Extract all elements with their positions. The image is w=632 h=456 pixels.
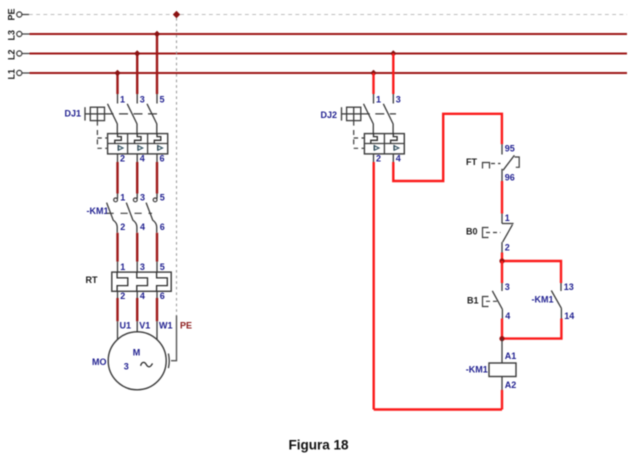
FT terminal 95 tick <box>501 144 503 154</box>
svg-text:2: 2 <box>376 154 381 164</box>
DJ2 thermal element pole2 <box>391 134 398 144</box>
B0 top bar <box>502 223 514 225</box>
motor stub U1 <box>117 321 119 339</box>
DJ1 terminal 2 tick <box>117 154 119 162</box>
DJ1 magnetic element pole1 <box>118 145 123 151</box>
DJ2 body column divider <box>383 134 385 154</box>
wire junction to coil A1 <box>501 339 503 363</box>
svg-text:DJ2: DJ2 <box>321 110 338 120</box>
svg-text:L2: L2 <box>7 49 17 60</box>
DJ1 body column divider 1 <box>127 134 129 154</box>
DJ1 thermal element pole2 <box>135 134 142 144</box>
wire KM1-6 to RT-5 <box>156 233 158 262</box>
FT terminal 96 tick <box>501 169 503 181</box>
wire DJ1-4 to KM1-3 <box>136 162 138 194</box>
breaker DJ2 linkage dashes <box>361 113 396 115</box>
wire KM1 aux 14 to junction 2 <box>502 319 561 339</box>
svg-text:4: 4 <box>396 154 401 164</box>
FT linkage dashes <box>491 163 501 165</box>
svg-text:6: 6 <box>160 154 165 164</box>
motor stub W1 <box>156 321 158 339</box>
svg-text:6: 6 <box>160 291 165 301</box>
svg-text:-KM1: -KM1 <box>87 206 109 216</box>
breaker DJ1 trip linkage dashed stub upper <box>97 137 107 139</box>
svg-text:96: 96 <box>505 173 515 183</box>
RT terminal 1 tick <box>117 262 119 273</box>
svg-text:5: 5 <box>160 95 165 105</box>
L2 rail <box>30 53 628 55</box>
wire L1 to DJ1 pole1 <box>116 73 118 94</box>
L1 rail <box>30 72 628 74</box>
RT terminal 6 tick <box>156 291 158 298</box>
wire RT-2 to motor U1 <box>116 298 118 321</box>
PE bus (dashed) <box>29 14 627 16</box>
terminal PE <box>7 8 30 20</box>
DJ2 pole1 terminal 1 tick <box>373 94 375 104</box>
breaker DJ1 operator bar <box>84 107 86 120</box>
B0 pushbutton symbol <box>483 228 489 238</box>
junction L1/DJ1 <box>114 70 120 76</box>
DJ2 terminal 2 tick <box>373 154 375 162</box>
motor sine symbol <box>141 362 153 366</box>
wire B1 to junction 2 <box>501 319 503 339</box>
wire B0 to junction <box>501 253 503 262</box>
branch wire to KM1 aux 13 <box>502 261 561 283</box>
svg-text:4: 4 <box>140 291 145 301</box>
svg-text:A1: A1 <box>505 351 517 361</box>
KM1 pole2 contact circle <box>133 198 137 202</box>
terminal L1 <box>7 69 30 80</box>
PE wire solid to motor <box>171 316 177 361</box>
B1 NO blade <box>492 291 502 310</box>
FT NC blade <box>503 155 514 170</box>
PE earth arc on motor frame <box>167 354 170 369</box>
svg-text:3: 3 <box>140 193 145 203</box>
DJ1 terminal 4 tick <box>136 154 138 162</box>
DJ1 body row divider <box>108 143 168 145</box>
svg-text:FT: FT <box>466 157 477 167</box>
B1 terminal 4 tick <box>501 309 503 318</box>
svg-text:-KM1: -KM1 <box>532 295 554 305</box>
KM1 pole1 terminal 1 tick <box>117 194 119 199</box>
breaker DJ2 trip linkage dashed stub lower <box>354 147 365 149</box>
svg-text:4: 4 <box>140 222 145 232</box>
KM1 pole1 contact circle <box>114 198 118 202</box>
B0 NC blade <box>503 225 513 243</box>
breaker DJ2 operator cross horizontal <box>347 113 361 115</box>
junction L2/DJ2 <box>390 50 396 56</box>
B0 linkage dashes <box>486 232 501 234</box>
B1 linkage dashes <box>486 300 497 302</box>
svg-text:V1: V1 <box>139 320 150 330</box>
DJ1 thermal element pole1 <box>115 134 122 144</box>
RT terminal 2 tick <box>117 291 119 298</box>
svg-text:L1: L1 <box>7 69 17 80</box>
breaker DJ1 linkage dashes <box>105 113 159 115</box>
DJ1 thermal element pole3 <box>154 134 161 144</box>
DJ2 body row divider <box>364 143 404 145</box>
svg-text:4: 4 <box>140 154 145 164</box>
svg-text:3: 3 <box>140 262 145 272</box>
svg-text:W1: W1 <box>159 320 173 330</box>
svg-text:2: 2 <box>120 222 125 232</box>
terminal L2 <box>7 49 30 60</box>
KM1 aux terminal 14 tick <box>560 308 562 318</box>
KM1 pole3 terminal 5 tick <box>156 194 158 199</box>
RT body box <box>112 272 171 291</box>
breaker DJ1 operator square <box>90 107 104 120</box>
svg-text:1: 1 <box>505 213 510 223</box>
wire junction to B1 <box>501 261 503 283</box>
breaker DJ1 trip linkage dashed stub lower <box>97 147 107 149</box>
svg-text:1: 1 <box>376 95 381 105</box>
breaker DJ2 operator cross vertical <box>353 107 355 120</box>
wire L3 to DJ1 pole3 <box>156 34 158 94</box>
junction node above coil <box>499 336 504 341</box>
KM1 pole3 blade <box>146 203 157 233</box>
svg-text:2: 2 <box>120 291 125 301</box>
svg-text:2: 2 <box>120 154 125 164</box>
B0 terminal 1 tick <box>501 214 503 224</box>
FT thermal symbol <box>483 163 490 169</box>
breaker DJ2 operator stub <box>342 113 347 115</box>
RT heater element pole2 <box>137 272 148 291</box>
breaker DJ1 operator cross horizontal <box>90 113 104 115</box>
RT heater element pole1 <box>117 272 128 291</box>
FT NC release hook <box>515 157 520 167</box>
svg-text:MO: MO <box>92 357 107 367</box>
DJ1 body box <box>108 134 168 154</box>
svg-text:PE: PE <box>7 8 17 20</box>
KM1 aux NO blade <box>551 291 561 309</box>
svg-text:3: 3 <box>396 95 401 105</box>
motor stub V1 <box>136 321 138 332</box>
junction L3/DJ1 <box>154 31 160 37</box>
KM1 pole2 blade <box>126 203 137 233</box>
DJ2 pole2 terminal 3 tick <box>392 94 394 104</box>
svg-text:14: 14 <box>564 311 574 321</box>
B0 terminal 2 tick <box>501 242 503 252</box>
DJ1 pole1 terminal 1 tick <box>117 94 119 104</box>
breaker DJ2 trip linkage dashed vertical <box>353 121 355 149</box>
wire DJ1-2 to KM1-1 <box>116 162 118 194</box>
svg-text:-KM1: -KM1 <box>466 365 488 375</box>
RT terminal 5 tick <box>156 262 158 273</box>
junction node below B0 <box>499 258 504 263</box>
wire RT-4 to motor V1 <box>136 298 138 321</box>
breaker DJ1 operator cross vertical <box>96 107 98 120</box>
KM1 pole1 blade <box>107 203 118 233</box>
wire L1 to DJ2 pole1 <box>372 73 374 94</box>
junction PE bus <box>173 11 180 18</box>
svg-text:M: M <box>133 348 141 358</box>
DJ1 magnetic element pole3 <box>158 145 163 151</box>
junction L1/DJ2 <box>370 70 376 76</box>
DJ2 thermal element pole1 <box>371 134 378 144</box>
svg-text:Figura 18: Figura 18 <box>289 438 350 453</box>
breaker DJ1 trip linkage dashed vertical <box>96 121 98 149</box>
svg-text:1: 1 <box>120 95 125 105</box>
DJ1 pole2 terminal 3 tick <box>136 94 138 104</box>
B1 terminal 3 tick <box>501 283 503 291</box>
svg-text:B0: B0 <box>466 227 478 237</box>
DJ2 body box <box>364 134 404 154</box>
svg-text:3: 3 <box>140 95 145 105</box>
contactor KM1 linkage dashes <box>107 212 153 214</box>
breaker DJ2 trip linkage dashed stub upper <box>354 137 365 139</box>
wire DJ2-2 down left side of control loop <box>373 162 375 410</box>
svg-text:5: 5 <box>160 262 165 272</box>
wire FT to B0 <box>501 181 503 214</box>
svg-text:6: 6 <box>160 222 165 232</box>
breaker DJ2 operator square <box>347 107 361 120</box>
L3 rail <box>30 33 628 35</box>
DJ1 pole3 terminal 5 tick <box>156 94 158 104</box>
wire L2 to DJ2 pole2 <box>392 54 394 95</box>
DJ1 body column divider 2 <box>147 134 149 154</box>
breaker DJ1 operator stub <box>85 113 90 115</box>
wire L2 to DJ1 pole2 <box>136 54 138 95</box>
svg-text:DJ1: DJ1 <box>65 109 82 119</box>
KM1 aux terminal 13 tick <box>560 283 562 291</box>
DJ1 pole3 blade <box>147 104 157 134</box>
svg-text:95: 95 <box>505 144 515 154</box>
svg-text:PE: PE <box>180 320 192 330</box>
DJ2 pole1 blade <box>364 104 374 134</box>
breaker DJ2 operator bar <box>341 107 343 120</box>
KM1 pole3 contact circle <box>153 198 157 202</box>
wire DJ1-6 to KM1-5 <box>156 162 158 194</box>
B1 pushbutton symbol <box>483 297 489 307</box>
PE drop (dashed gray) <box>176 18 178 316</box>
DJ2 pole2 blade <box>383 104 393 134</box>
svg-text:5: 5 <box>160 193 165 203</box>
RT terminal 3 tick <box>136 262 138 273</box>
DJ1 pole2 blade <box>127 104 137 134</box>
coil A2 tick <box>501 377 503 391</box>
motor MO circle <box>108 332 166 390</box>
wire DJ2-4 to FT (down right up across) <box>393 114 502 181</box>
svg-text:A2: A2 <box>505 380 517 390</box>
DJ1 pole1 blade <box>108 104 118 134</box>
wire coil A2 down <box>501 390 503 410</box>
svg-text:L3: L3 <box>7 30 17 41</box>
terminal L3 <box>7 30 30 41</box>
svg-text:B1: B1 <box>467 296 479 306</box>
junction L2/DJ1 <box>134 50 140 56</box>
coil KM1 body <box>489 363 516 377</box>
KM1 pole2 terminal 3 tick <box>136 194 138 199</box>
svg-text:3: 3 <box>124 362 129 372</box>
DJ1 terminal 6 tick <box>156 154 158 162</box>
DJ1 magnetic element pole2 <box>138 145 143 151</box>
svg-text:1: 1 <box>120 193 125 203</box>
svg-text:3: 3 <box>505 282 510 292</box>
svg-text:4: 4 <box>505 311 510 321</box>
bottom return wire <box>374 408 502 410</box>
svg-text:RT: RT <box>86 275 98 285</box>
svg-text:13: 13 <box>564 282 574 292</box>
wire KM1-2 to RT-1 <box>116 233 118 262</box>
wire RT-6 to motor W1 <box>156 298 158 321</box>
RT heater element pole3 <box>157 272 168 291</box>
DJ2 magnetic element pole2 <box>394 145 399 151</box>
svg-text:1: 1 <box>120 262 125 272</box>
RT terminal 4 tick <box>136 291 138 298</box>
wire KM1-4 to RT-3 <box>136 233 138 262</box>
svg-text:2: 2 <box>505 243 510 253</box>
DJ2 magnetic element pole1 <box>374 145 379 151</box>
svg-text:U1: U1 <box>120 320 132 330</box>
DJ2 terminal 4 tick <box>392 154 394 162</box>
